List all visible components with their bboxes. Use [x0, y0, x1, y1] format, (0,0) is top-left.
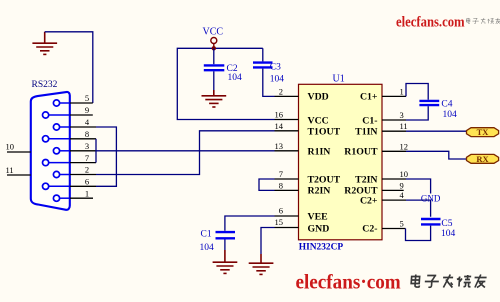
- svg-text:15: 15: [275, 217, 284, 227]
- svg-text:R1OUT: R1OUT: [344, 147, 378, 158]
- wire U1 T2OUT-R2IN loopback: [259, 179, 275, 190]
- wire junction pins 8-3-7: [95, 139, 97, 163]
- logo bottom: chinese 电子发烧友: [411, 275, 487, 288]
- wire U1 T1IN to TX port: [406, 130, 467, 132]
- ground under pin15: [249, 254, 274, 274]
- svg-text:GND: GND: [308, 223, 330, 234]
- port TX: [467, 128, 499, 137]
- op chip U1 body: [299, 84, 383, 240]
- U1 right pin numbers: [400, 86, 409, 228]
- wire DB9 pin3 to U1 R1IN: [96, 150, 275, 152]
- svg-text:12: 12: [400, 141, 409, 151]
- capacitor C5: [421, 218, 441, 220]
- ground under C2: [202, 90, 227, 107]
- svg-text:U1: U1: [333, 74, 345, 85]
- wire U1 C1+ to C4: [406, 84, 428, 100]
- svg-text:elecfans·com: elecfans·com: [296, 271, 401, 294]
- capacitor C2: [213, 48, 215, 64]
- svg-text:104: 104: [270, 74, 285, 84]
- svg-text:C2-: C2-: [362, 223, 377, 234]
- svg-text:T2IN: T2IN: [355, 174, 377, 185]
- DB9 internal pin leads (blue): [49, 103, 70, 198]
- svg-text:7: 7: [279, 169, 283, 179]
- svg-text:T1IN: T1IN: [355, 126, 377, 137]
- svg-text:HIN232CP: HIN232CP: [299, 243, 344, 253]
- svg-text:1: 1: [85, 188, 89, 198]
- svg-text:9: 9: [85, 105, 89, 115]
- U1 left pin numbers: [275, 86, 284, 227]
- svg-text:2: 2: [85, 165, 89, 175]
- junction dot: [212, 46, 216, 50]
- svg-text:8: 8: [279, 180, 283, 190]
- U1 pin names right column: [344, 92, 378, 235]
- DB9 pin numbers: [85, 93, 90, 198]
- svg-text:10: 10: [6, 142, 15, 152]
- watermark top right: chinese: [466, 18, 500, 24]
- logo bottom: elecfans.com: [296, 271, 401, 294]
- ground (top-left power ground symbol): [32, 32, 57, 55]
- wire U1 R1OUT to RX port: [406, 151, 467, 159]
- wire U1 C2+ to C5: [406, 200, 431, 217]
- svg-text:RX: RX: [476, 154, 489, 164]
- svg-text:5: 5: [400, 219, 404, 229]
- svg-text:1: 1: [400, 86, 404, 96]
- svg-text:8: 8: [85, 129, 89, 139]
- svg-text:VDD: VDD: [308, 92, 329, 103]
- ground under C1: [213, 250, 238, 273]
- svg-text:104: 104: [443, 110, 458, 120]
- wire C3 to U1 VDD: [263, 69, 275, 97]
- svg-text:C1-: C1-: [362, 115, 377, 126]
- wire U1 T2IN to GND label: [406, 179, 431, 194]
- U1 pin names left column: [308, 92, 341, 235]
- svg-text:6: 6: [85, 177, 89, 187]
- svg-text:10: 10: [400, 169, 409, 179]
- svg-text:VEE: VEE: [308, 211, 329, 222]
- wire U1 GND pin15 to ground: [261, 228, 275, 255]
- svg-text:13: 13: [275, 141, 284, 151]
- svg-text:C1: C1: [201, 230, 212, 240]
- wire C4 to U1 C1-: [406, 106, 428, 120]
- svg-text:elecfans.com: elecfans.com: [396, 15, 465, 31]
- wire loopback DB9 pins 4-6: [96, 127, 116, 186]
- wire C5 to U1 C2-: [406, 226, 431, 241]
- svg-text:7: 7: [85, 153, 89, 163]
- svg-text:C2+: C2+: [360, 195, 378, 206]
- wire U1 VEE to C1: [225, 216, 275, 231]
- svg-text:9: 9: [400, 180, 404, 190]
- capacitor C3: [262, 48, 264, 61]
- capacitor C1: [216, 231, 236, 233]
- svg-text:104: 104: [228, 73, 243, 83]
- wire 10 (shell): [7, 151, 31, 153]
- svg-text:TX: TX: [477, 127, 490, 137]
- U1 left pin leads (black): [275, 96, 299, 227]
- port RX: [467, 154, 499, 163]
- svg-text:VCC: VCC: [203, 27, 224, 38]
- svg-text:C5: C5: [441, 219, 452, 229]
- svg-text:104: 104: [441, 229, 456, 239]
- svg-text:16: 16: [275, 110, 284, 120]
- wire 11 (shell): [7, 174, 31, 176]
- svg-text:14: 14: [275, 121, 284, 131]
- svg-text:6: 6: [279, 206, 283, 216]
- svg-text:3: 3: [85, 141, 89, 151]
- DB9 pin stubs (black): [70, 103, 96, 198]
- wire DB9 pin2 to U1 T1OUT: [96, 131, 275, 175]
- capacitor C4: [419, 100, 439, 102]
- svg-text:5: 5: [85, 93, 89, 103]
- wire C1 to ground: [224, 240, 226, 251]
- svg-text:C1+: C1+: [360, 92, 378, 103]
- U1 right pin leads (black): [382, 96, 406, 228]
- svg-text:3: 3: [400, 110, 404, 120]
- svg-text:C3: C3: [270, 63, 281, 73]
- wire VCC rail: [177, 48, 274, 119]
- svg-text:VCC: VCC: [308, 115, 329, 126]
- DB9 pin circles right column (pins 5,4,3,2,1): [53, 100, 59, 201]
- svg-text:T2OUT: T2OUT: [308, 174, 341, 185]
- svg-text:11: 11: [6, 165, 14, 175]
- wire ground to DB9 pin5: [45, 32, 93, 103]
- DB9 pin circles left column (pins 9,8,7,6): [43, 112, 49, 189]
- svg-text:R1IN: R1IN: [308, 147, 331, 158]
- svg-text:T1OUT: T1OUT: [308, 126, 341, 137]
- svg-text:R2IN: R2IN: [308, 186, 331, 197]
- svg-text:RS232: RS232: [32, 80, 58, 90]
- svg-text:2: 2: [279, 86, 283, 96]
- svg-text:C4: C4: [441, 100, 452, 110]
- svg-text:104: 104: [200, 243, 215, 253]
- connector J RS232 (DB9) outline: [31, 92, 70, 210]
- svg-text:11: 11: [400, 121, 408, 131]
